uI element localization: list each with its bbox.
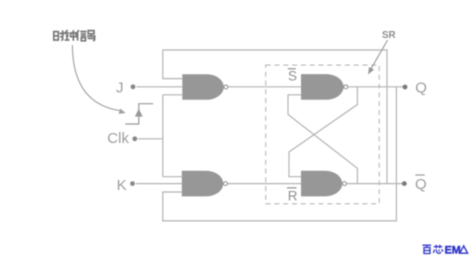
node Q terminal dot xyxy=(403,85,408,90)
clock annotation curved arrow xyxy=(72,45,119,111)
wire: Qbar output line from U4 xyxy=(346,183,402,185)
logo 百芯EMA xyxy=(423,245,443,254)
芯 xyxy=(433,245,443,253)
wire: Qbar feedback top rail to U1 upper input xyxy=(163,50,387,184)
label 时钟信号 (hand drawn glyphs) xyxy=(54,30,96,41)
svg-text:EM: EM xyxy=(445,245,461,257)
时 xyxy=(54,32,59,40)
svg-text:S: S xyxy=(288,68,297,83)
号 xyxy=(88,31,94,34)
overline of Rbar xyxy=(287,187,297,189)
overline of Sbar xyxy=(288,68,296,70)
SR pointer arrow xyxy=(371,40,388,70)
wire: J input to U1 xyxy=(137,86,183,88)
bubble U4 xyxy=(343,182,347,186)
svg-text:K: K xyxy=(117,177,127,194)
dashed SR latch box xyxy=(266,65,380,204)
wire: Q feedback bottom rail to U2 lower input xyxy=(163,87,397,221)
overline of Qbar xyxy=(415,174,425,176)
wire: U2 output to U4 input xyxy=(227,183,301,185)
wire: K input to U2 xyxy=(136,183,182,185)
wire: stub clock bus to U1 lower input xyxy=(163,94,183,96)
bubble U3 xyxy=(344,85,348,89)
nand gate U4 (R gate) xyxy=(301,171,342,197)
信 xyxy=(77,30,79,41)
node K terminal dot xyxy=(130,181,135,186)
nand gate U1 (J gate) xyxy=(182,74,224,100)
clock edge symbol xyxy=(125,104,153,124)
nand gate U3 (S gate) xyxy=(301,74,344,100)
svg-text:J: J xyxy=(116,79,124,96)
nand gate U2 (K gate) xyxy=(182,171,224,197)
svg-text:Clk: Clk xyxy=(107,130,129,147)
svg-text:Q: Q xyxy=(415,176,427,193)
bubble U1 xyxy=(224,85,228,89)
wire: Clk input to clock bus xyxy=(138,138,163,140)
svg-text:R: R xyxy=(288,188,298,203)
wire: clock bus vertical joining U1 and U2 xyxy=(162,95,164,177)
bubble U2 xyxy=(224,182,228,186)
node Clk terminal dot xyxy=(132,136,137,141)
wire: Q output line from U3 xyxy=(348,86,403,88)
wire: cross-coupling Qbar line to U3 lower input xyxy=(288,95,357,184)
百 xyxy=(423,245,432,253)
wire: stub clock bus to U2 upper input xyxy=(163,176,182,178)
钟 xyxy=(65,30,70,40)
svg-text:Q: Q xyxy=(415,80,427,97)
wire: cross-coupling Q line to U4 upper input xyxy=(289,87,357,177)
node J terminal dot xyxy=(131,84,136,89)
svg-text:SR: SR xyxy=(382,30,396,41)
wire: U1 output to U3 input xyxy=(228,86,301,88)
node Qbar terminal dot xyxy=(402,181,407,186)
